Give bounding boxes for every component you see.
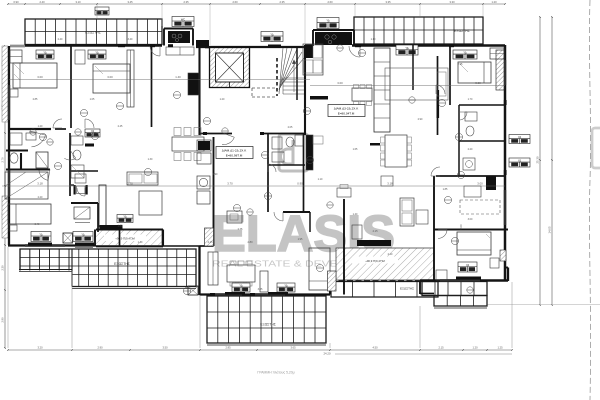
- center unit desk: [337, 188, 351, 197]
- elevator shaft: [210, 48, 250, 88]
- bath right fixtures: [465, 112, 477, 121]
- light line bottom right: [487, 304, 600, 306]
- right unit top bedroom wall: [449, 45, 451, 105]
- left unit wall x119 lower: [119, 230, 121, 247]
- bath2 walls: [71, 170, 98, 172]
- balcony grid top-left: [25, 19, 162, 45]
- entry door center unit: [222, 137, 234, 144]
- svg-text:ΔΙΑΜ.Δ1-2Δ.2Χ.Κ: ΔΙΑΜ.Δ1-2Δ.2Χ.Κ: [222, 149, 248, 153]
- door right bedroom bottom: [438, 230, 447, 239]
- kitchen counter left unit: [188, 73, 199, 95]
- right unit kitchen counters: [303, 44, 323, 75]
- balcony grid bottom-right: [422, 282, 487, 296]
- svg-text:ΔΙΑΜ.Δ3-2Δ.2Χ.Κ: ΔΙΑΜ.Δ3-2Δ.2Χ.Κ: [334, 107, 360, 111]
- svg-text:2.90: 2.90: [418, 118, 423, 121]
- svg-text:0.90: 0.90: [297, 182, 303, 186]
- left unit appliance column: [197, 140, 211, 151]
- right unit bedroom wall y229: [434, 228, 508, 230]
- kitchen protrusion top-right: [312, 30, 314, 46]
- svg-text:ΕΞΩΣΤΗΣ: ΕΞΩΣΤΗΣ: [114, 262, 130, 266]
- wardrobe bedroom1: [10, 50, 22, 63]
- svg-text:2.45: 2.45: [118, 125, 123, 128]
- svg-text:1.20: 1.20: [220, 98, 225, 101]
- svg-text:ΕΞΩΣΤΗΣ: ΕΞΩΣΤΗΣ: [454, 29, 470, 33]
- center unit dining table: [227, 265, 255, 282]
- door jambs: [118, 44, 125, 47]
- label box kitchen TR: [317, 18, 339, 29]
- right unit dining big: [385, 135, 407, 167]
- label boxes right outside: [509, 135, 530, 144]
- svg-text:3.00: 3.00: [477, 182, 483, 186]
- windows bottom-left: [25, 244, 65, 246]
- door right hall: [436, 85, 445, 94]
- svg-text:3.20: 3.20: [37, 345, 43, 349]
- west wall center unit: [162, 230, 164, 247]
- kitchen upper cabinets left unit: [166, 47, 194, 55]
- svg-text:3.40: 3.40: [128, 38, 133, 41]
- center unit bed bottom: [309, 248, 330, 290]
- svg-text:+90,9 Π(9,47)Μ: +90,9 Π(9,47)Μ: [115, 237, 135, 241]
- svg-text:1.70: 1.70: [468, 98, 473, 101]
- svg-text:1.40: 1.40: [175, 75, 181, 79]
- svg-text:0.90: 0.90: [13, 0, 19, 4]
- door right bath: [459, 112, 467, 120]
- door center bath: [268, 164, 276, 172]
- svg-text:+90,9 Π(9,47)Μ: +90,9 Π(9,47)Μ: [365, 259, 385, 263]
- svg-text:2.60: 2.60: [327, 0, 333, 4]
- svg-text:Ε=80,98Τ.Μ: Ε=80,98Τ.Μ: [226, 154, 243, 158]
- planter box at G4: [188, 286, 198, 295]
- svg-text:2.05: 2.05: [288, 126, 293, 129]
- left unit spine wall x70 lower: [69, 133, 71, 196]
- label box bed1: [36, 50, 54, 59]
- wall bedroom1/bedroom2 left unit: [70, 46, 72, 108]
- svg-text:3.18: 3.18: [387, 182, 393, 186]
- elevator door jamb: [268, 45, 281, 49]
- svg-text:ΥΔ: ΥΔ: [95, 50, 99, 54]
- svg-text:1.65: 1.65: [353, 148, 358, 151]
- svg-text:1.85: 1.85: [117, 224, 123, 228]
- stair cut line dashed: [276, 58, 278, 96]
- svg-text:2.20: 2.20: [38, 196, 43, 199]
- stair landing dashed: [252, 88, 277, 97]
- entry door right unit: [349, 46, 360, 57]
- bottom wall left unit: [8, 244, 96, 246]
- door bedroom3: [39, 171, 48, 181]
- dim chain right unit: [310, 85, 505, 87]
- svg-text:2.75: 2.75: [238, 228, 243, 231]
- right unit cabinet strip: [374, 48, 390, 132]
- dashed closet bottom-right: [460, 200, 500, 214]
- center unit bath walls: [267, 134, 269, 213]
- svg-text:ΥΔ: ΥΔ: [463, 50, 467, 54]
- bath2 fixtures left unit: [71, 136, 83, 145]
- bed bedroom3 bottom-left: [8, 204, 51, 224]
- east wall of center-bottom section: [329, 281, 331, 295]
- semi-open terrace hatch left (ΗΜΙΥΠ): [95, 230, 162, 246]
- svg-text:3.70: 3.70: [227, 182, 233, 186]
- center unit west wall upper: [213, 137, 215, 246]
- svg-text:ΥΔ: ΥΔ: [518, 158, 522, 162]
- svg-text:ΥΔ: ΥΔ: [270, 32, 274, 36]
- bath1 fixtures left unit: [10, 133, 22, 145]
- svg-text:ΥΔ: ΥΔ: [326, 19, 330, 23]
- svg-text:2.70: 2.70: [0, 157, 4, 163]
- svg-text:2.85: 2.85: [225, 345, 231, 349]
- svg-text:1.95: 1.95: [298, 238, 303, 241]
- door bedroom2: [85, 119, 94, 128]
- right unit bath divider: [459, 140, 505, 142]
- center unit kitchen: [306, 135, 313, 170]
- dresser mid-right room: [464, 186, 481, 197]
- svg-text:ΥΔ: ΥΔ: [466, 263, 470, 267]
- svg-text:3.70: 3.70: [127, 182, 133, 186]
- svg-text:WC: WC: [181, 17, 185, 21]
- left unit bath walls: [6, 150, 28, 152]
- right unit rug/bed outline: [385, 68, 448, 100]
- left dimension line: [4, 46, 6, 348]
- svg-text:3.00: 3.00: [37, 75, 43, 79]
- stairs winder: [279, 48, 305, 94]
- svg-text:1.10: 1.10: [138, 241, 143, 244]
- exterior wall top-right unit: [305, 44, 313, 46]
- left unit horizontal wall y128: [9, 128, 51, 130]
- coffee table living left: [139, 191, 162, 215]
- balcony grid bottom-left: [20, 249, 196, 287]
- sofa living left: [127, 172, 158, 185]
- svg-text:1.05: 1.05: [90, 98, 95, 101]
- svg-text:1.20: 1.20: [491, 0, 497, 4]
- door bath1: [31, 135, 45, 147]
- tv bench bottom-right: [456, 277, 481, 280]
- label boxes bottom-center: [232, 283, 250, 292]
- center unit wardrobe tall: [208, 252, 218, 285]
- svg-text:Ε=80,04Τ.Μ: Ε=80,04Τ.Μ: [338, 112, 355, 116]
- right unit bath walls: [458, 105, 460, 176]
- svg-text:3.45: 3.45: [127, 0, 133, 4]
- svg-text:3.30: 3.30: [449, 0, 455, 4]
- svg-text:ΕΞΩΣΤΗΣ: ΕΞΩΣΤΗΣ: [400, 287, 414, 291]
- door right bedroom mid: [431, 167, 440, 176]
- svg-text:1.10: 1.10: [371, 38, 376, 41]
- wardrobe square bottom-right: [490, 258, 499, 268]
- door bed4: [77, 188, 85, 196]
- dining table left unit: [172, 137, 204, 151]
- svg-text:1.20: 1.20: [472, 345, 478, 349]
- core lobby walls: [296, 47, 298, 100]
- label box right living: [396, 45, 418, 55]
- semi-open terrace hatch right (ΗΜΙΥΠ): [336, 248, 434, 280]
- pier closet: [99, 185, 106, 227]
- window bottom-right: [440, 279, 480, 281]
- svg-text:ΥΔ: ΥΔ: [43, 50, 47, 54]
- wall bedroom2 right: [151, 46, 153, 127]
- svg-text:3.00: 3.00: [468, 218, 473, 221]
- wardrobe bedroom2 strip: [127, 50, 134, 107]
- right unit dining small: [352, 88, 372, 101]
- right dimension lines: [539, 17, 541, 305]
- svg-text:ΥΔ: ΥΔ: [284, 283, 288, 287]
- svg-text:2.90: 2.90: [97, 345, 103, 349]
- svg-text:3.05: 3.05: [258, 288, 263, 291]
- center unit small sofa: [352, 225, 362, 239]
- svg-text:ΥΔ: ΥΔ: [518, 135, 522, 139]
- label box bed2: [88, 50, 106, 59]
- bed bedroom2: [93, 64, 130, 93]
- label box bed TR: [453, 50, 477, 59]
- core top wall: [196, 46, 310, 48]
- label boxes bottom-left: [31, 232, 51, 242]
- center unit black bench: [357, 240, 391, 246]
- bed bottom-right: [457, 232, 491, 255]
- center unit inner wall x344: [343, 199, 345, 295]
- svg-text:3.50: 3.50: [162, 345, 168, 349]
- label box left-mid: [117, 215, 133, 223]
- svg-text:2.30: 2.30: [0, 265, 4, 271]
- balcony grid top-right: [354, 17, 483, 44]
- south wall over mid balcony strip: [330, 280, 438, 282]
- tick drop lines top: [96, 4, 98, 18]
- SE corner step: [507, 268, 509, 282]
- right unit wall at x436: [437, 56, 439, 135]
- svg-text:3.00: 3.00: [459, 224, 463, 230]
- svg-text:2.85: 2.85: [33, 98, 38, 101]
- svg-text:4.15: 4.15: [372, 229, 378, 233]
- unit label box Δ3: [328, 105, 365, 117]
- top dimension line: [8, 3, 505, 5]
- svg-text:ΥΔ: ΥΔ: [239, 283, 243, 287]
- svg-text:1.30: 1.30: [148, 158, 153, 161]
- svg-text:0.90: 0.90: [213, 173, 218, 176]
- svg-text:3.10: 3.10: [75, 0, 81, 4]
- chair bottom-right: [436, 270, 447, 280]
- svg-text:ΥΔ: ΥΔ: [405, 46, 409, 50]
- dim chain mid full width: [2, 185, 505, 187]
- balcony grid bottom-center: [207, 296, 326, 343]
- svg-text:ΕΞΩΣΤΗΣ: ΕΞΩΣΤΗΣ: [260, 323, 276, 327]
- door center bed: [274, 212, 283, 221]
- watermark partial logo right edge: [592, 128, 600, 168]
- tiny box on top dim line: [95, 7, 109, 15]
- center unit bath fixtures: [272, 137, 282, 149]
- svg-text:2.15: 2.15: [438, 345, 444, 349]
- stamps: [116, 102, 123, 109]
- svg-text:4.50: 4.50: [372, 345, 378, 349]
- svg-text:ΥΔ: ΥΔ: [39, 232, 43, 236]
- svg-text:3.00: 3.00: [475, 81, 481, 85]
- entry door left unit: [150, 46, 160, 56]
- window right wall: [503, 190, 505, 225]
- hatched box west wall center unit: [205, 228, 214, 246]
- svg-text:3.18: 3.18: [37, 182, 43, 186]
- window left wall: [7, 85, 9, 120]
- unit label box Δ1: [216, 147, 253, 159]
- vertical helper lines: [199, 295, 201, 348]
- svg-text:2.35: 2.35: [183, 0, 189, 4]
- svg-text:1.85: 1.85: [443, 188, 448, 191]
- svg-text:2.90: 2.90: [0, 317, 4, 323]
- svg-text:1.25: 1.25: [497, 345, 503, 349]
- svg-text:1.40: 1.40: [353, 213, 358, 216]
- planter box entry left unit: [63, 233, 73, 243]
- svg-text:24.20: 24.20: [324, 352, 331, 356]
- svg-text:2.35: 2.35: [279, 0, 285, 4]
- nightstand bedroom1: [10, 89, 18, 97]
- center unit hatched wardrobe: [328, 271, 337, 291]
- wardrobe with mirror bedroom3: [5, 172, 48, 199]
- svg-text:2.10: 2.10: [388, 253, 393, 256]
- dim chain left rooms: [9, 79, 310, 81]
- svg-text:4.15: 4.15: [207, 240, 213, 244]
- label box sill left: [28, 243, 52, 246]
- center unit desk: [227, 211, 242, 223]
- exterior wall protrusion left-kitchen: [163, 29, 165, 46]
- sink bath2: [75, 174, 86, 183]
- bed bedroom1 top-left: [13, 63, 57, 88]
- balcony strip mid-right: [331, 282, 438, 298]
- core walls: [198, 47, 200, 135]
- neighbour wall hatch left: [2, 46, 8, 122]
- svg-text:2.95: 2.95: [458, 63, 463, 66]
- svg-text:2.40: 2.40: [58, 38, 63, 41]
- desk bedroom2: [75, 50, 85, 64]
- watermark logo square: [279, 134, 308, 171]
- svg-text:14.05: 14.05: [548, 226, 552, 233]
- label box bottom-right bedroom: [458, 262, 477, 272]
- label box core top: [261, 32, 283, 42]
- bottom dimension line: [8, 349, 512, 351]
- door bedroom1: [53, 119, 62, 128]
- svg-text:3.65: 3.65: [290, 345, 296, 349]
- closet corner top-right: [490, 48, 504, 59]
- right unit kitchen bench black: [310, 96, 328, 100]
- door bath2: [64, 158, 75, 160]
- extra stamps: [30, 129, 36, 135]
- shower room below bath2: [74, 207, 90, 219]
- svg-text:2.20: 2.20: [468, 148, 473, 151]
- center unit sofa: [260, 271, 268, 292]
- svg-text:2.60: 2.60: [232, 0, 238, 4]
- boundary dashed line right: [589, 0, 590, 400]
- right exterior wall: [504, 45, 507, 281]
- svg-text:25.30: 25.30: [536, 156, 540, 163]
- windows bottom-center: [212, 293, 242, 295]
- svg-text:2.80: 2.80: [247, 240, 253, 244]
- window top-left corner: [10, 44, 25, 46]
- bottom wall right unit: [420, 279, 508, 282]
- svg-text:ΥΔ: ΥΔ: [123, 215, 127, 219]
- svg-text:1.10: 1.10: [318, 178, 323, 181]
- svg-text:3.00: 3.00: [107, 75, 113, 79]
- svg-text:ΥΔ: ΥΔ: [81, 232, 85, 236]
- toilet stubs bath2: [74, 185, 76, 195]
- svg-text:2.40: 2.40: [35, 223, 40, 226]
- svg-text:3.00: 3.00: [337, 81, 343, 85]
- exterior wall top-left unit: [25, 44, 162, 47]
- label box living left: [85, 129, 100, 137]
- bottom wall center unit: [200, 293, 331, 295]
- shower box bath1: [36, 152, 48, 168]
- left exterior wall: [8, 46, 10, 245]
- wardrobe top-right strip: [496, 50, 504, 90]
- svg-text:3.35: 3.35: [385, 0, 391, 4]
- svg-text:2.40: 2.40: [39, 0, 45, 4]
- svg-text:ΓΡΑΜΜΗ πλάτους 5,20μ: ΓΡΑΜΜΗ πλάτους 5,20μ: [257, 371, 294, 375]
- svg-text:ΕΞΩΣΤΗΣ: ΕΞΩΣΤΗΣ: [85, 31, 101, 35]
- label box WC top: [172, 17, 194, 27]
- bed top-right: [458, 62, 491, 83]
- svg-text:1.20: 1.20: [38, 125, 43, 128]
- right unit living sofas: [400, 198, 414, 226]
